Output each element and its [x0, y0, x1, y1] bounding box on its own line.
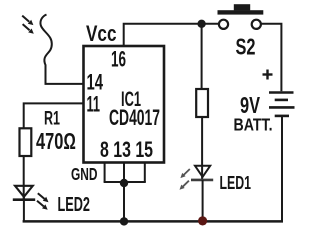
wire: Vcc stub and top rail to S2	[124, 24, 219, 46]
light arrow 2	[23, 24, 34, 34]
junction node pin13	[120, 179, 128, 187]
wire: resistor to LED1	[201, 117, 203, 180]
junction node (top rail / S2 / dropper)	[197, 20, 205, 28]
svg-text:BATT.: BATT.	[234, 115, 273, 135]
svg-text:R1: R1	[44, 109, 60, 130]
svg-text:470Ω: 470Ω	[36, 128, 76, 154]
resistor R1	[20, 128, 32, 156]
IC pin 8 stub	[104, 163, 106, 183]
wire: battery negative down right side	[281, 116, 283, 221]
switch S2 terminals	[219, 20, 228, 29]
svg-text:LED2: LED2	[58, 194, 91, 216]
sensor wire (squiggle)	[40, 15, 51, 84]
switch S2 button cap	[218, 10, 264, 14]
battery BT1 plates	[269, 93, 295, 116]
LED1 emission arrow 2	[180, 181, 189, 190]
IC pin 13 stub	[123, 163, 125, 184]
light arrow 1 (incident light onto sensor wire)	[22, 16, 33, 26]
IC1 body	[84, 46, 165, 163]
ground rail (bottom wire)	[23, 220, 283, 223]
svg-text:S2: S2	[236, 34, 256, 60]
wire: pin13 junction to ground rail	[123, 183, 125, 221]
junction node on ground rail	[120, 217, 128, 225]
wire: LED1 to ground rail	[202, 180, 204, 222]
IC pin 15 stub	[144, 163, 146, 183]
LED1 emission arrow 1	[180, 169, 189, 178]
svg-text:CD4017: CD4017	[109, 105, 160, 130]
LED1 diode	[191, 166, 213, 180]
wire: IC pin 11 to left rail	[24, 103, 84, 128]
dropper resistor (unlabeled)	[196, 89, 208, 117]
wire: LED2 to ground rail	[23, 200, 25, 222]
ground bus bar under IC	[104, 181, 146, 183]
wire: sensor to IC pin 14	[45, 83, 84, 85]
LED2 emission arrow 1	[38, 193, 49, 202]
junction node LED1/ground rail	[198, 216, 207, 225]
LED2 diode	[13, 186, 35, 200]
wire: R1 to LED2	[23, 156, 25, 200]
LED2 emission arrow 2	[37, 201, 48, 210]
wire: junction down to dropper resistor	[201, 24, 203, 89]
svg-text:11: 11	[87, 92, 101, 117]
wire: S2 to battery positive	[261, 24, 281, 92]
svg-text:Vcc: Vcc	[86, 21, 117, 46]
svg-text:GND: GND	[71, 164, 98, 184]
svg-text:16: 16	[111, 47, 126, 72]
svg-text:LED1: LED1	[220, 173, 252, 193]
svg-text:8 13 15: 8 13 15	[100, 137, 153, 162]
battery plus sign	[263, 70, 273, 80]
